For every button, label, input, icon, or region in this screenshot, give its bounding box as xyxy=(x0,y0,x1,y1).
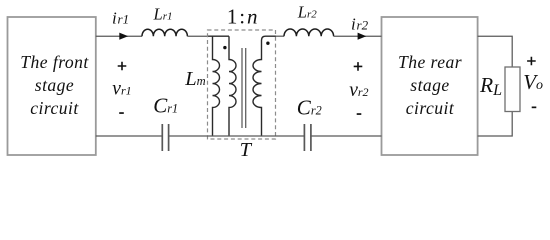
wire bottom middle xyxy=(169,135,305,137)
rear stage box xyxy=(382,17,478,155)
wire top left xyxy=(96,35,142,37)
transformer dashed outline xyxy=(208,30,276,139)
label vr1 minus xyxy=(119,112,124,114)
transformer primary winding xyxy=(229,36,236,136)
wire rail primary top xyxy=(208,35,230,37)
arrow ir1 xyxy=(119,33,128,40)
inductor Lr1 xyxy=(142,29,187,36)
svg-text:T: T xyxy=(240,139,253,161)
wire bottom left xyxy=(96,135,162,137)
polarity dot primary xyxy=(223,46,226,49)
wire top into transformer xyxy=(187,35,208,37)
front stage box xyxy=(8,17,96,155)
label vr2 minus xyxy=(357,113,362,115)
load branch wires xyxy=(478,36,513,136)
wire top right of transformer xyxy=(276,35,285,37)
svg-text:The front: The front xyxy=(20,52,89,72)
transformer core xyxy=(242,48,246,128)
polarity dot secondary xyxy=(266,42,269,45)
label Vo minus xyxy=(532,107,537,109)
svg-text:stage: stage xyxy=(35,75,74,95)
svg-text:circuit: circuit xyxy=(30,98,79,118)
svg-text:The rear: The rear xyxy=(398,52,462,72)
inductor Lr2 xyxy=(284,29,334,36)
arrow ir2 xyxy=(358,33,367,40)
label Vo plus xyxy=(527,57,536,66)
svg-text:ir2: ir2 xyxy=(351,15,369,34)
label vr1 plus xyxy=(118,62,127,71)
svg-text:circuit: circuit xyxy=(406,98,455,118)
svg-text:ir1: ir1 xyxy=(112,9,129,28)
capacitor Cr2 xyxy=(304,124,311,151)
wire bottom right xyxy=(311,135,382,137)
magnetizing inductor Lm xyxy=(213,36,220,136)
svg-text:1:n: 1:n xyxy=(227,4,260,28)
svg-text:stage: stage xyxy=(410,75,449,95)
transformer secondary winding xyxy=(253,36,276,136)
wire top to rear box xyxy=(334,35,382,37)
label vr2 plus xyxy=(354,62,363,71)
resistor RL xyxy=(505,67,520,112)
capacitor Cr1 xyxy=(162,124,168,151)
